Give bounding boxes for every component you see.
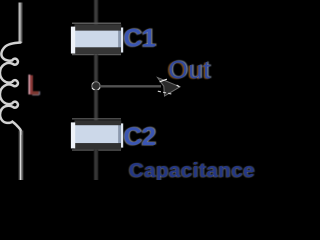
svg-text:Out: Out <box>168 57 211 85</box>
wire C1 to junction <box>94 55 97 84</box>
svg-text:Capacitance: Capacitance <box>129 160 255 180</box>
caption Capacitance <box>128 160 256 183</box>
label C1 <box>123 24 157 53</box>
wire left branch bottom <box>19 130 23 180</box>
arrow to Out <box>100 78 180 97</box>
capacitor C1 <box>71 23 123 54</box>
svg-text:C1: C1 <box>124 24 156 52</box>
wire left branch top <box>19 3 23 44</box>
svg-text:C2: C2 <box>124 123 156 151</box>
wire junction to C2 <box>94 90 97 121</box>
label Out <box>167 56 213 85</box>
wire below C2 <box>94 150 97 180</box>
inductor L (coil) <box>0 43 22 134</box>
node junction (output tap) <box>92 82 100 90</box>
wire top of C1 <box>94 0 97 25</box>
label L (red, inductor designator) <box>28 75 40 96</box>
capacitor C2 <box>71 119 123 150</box>
label C2 <box>123 123 157 152</box>
